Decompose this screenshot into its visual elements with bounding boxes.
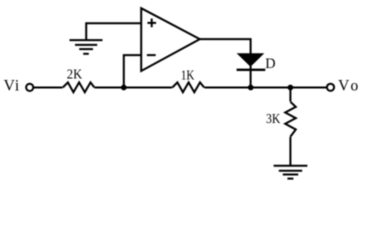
svg-text:o: o [351,77,359,94]
ground (below 3K) [274,166,308,179]
wire inverting input vertical [124,55,141,87]
ground lead (op-amp + input) [86,23,141,40]
op-amp U1 [141,8,200,71]
op-amp + pin mark [147,19,156,28]
terminal Vi [26,84,33,91]
wire op-amp output to diode [200,39,251,54]
wire Vi to 2K [34,87,63,89]
ground (op-amp + input) [70,40,103,54]
wire 2K to 1K [95,87,172,89]
svg-text:i: i [15,77,20,94]
diode D [237,53,266,87]
svg-text:V: V [338,77,350,94]
svg-text:D: D [265,56,275,72]
resistor 3K [285,88,296,166]
terminal Vo [327,84,334,91]
resistor 2K [63,82,95,92]
svg-text:2K: 2K [67,67,82,82]
svg-text:3K: 3K [266,112,280,127]
svg-text:1K: 1K [181,69,195,84]
label Vi [4,77,20,94]
junction node (3K top) [288,85,294,91]
resistor 1K [172,82,204,92]
wire 3K junction to Vo [205,87,327,89]
svg-text:V: V [4,77,16,94]
label Vo [338,77,358,94]
junction node (diode cathode) [248,85,254,91]
op-amp - pin mark [147,54,156,56]
junction node (inverting input) [121,85,127,91]
